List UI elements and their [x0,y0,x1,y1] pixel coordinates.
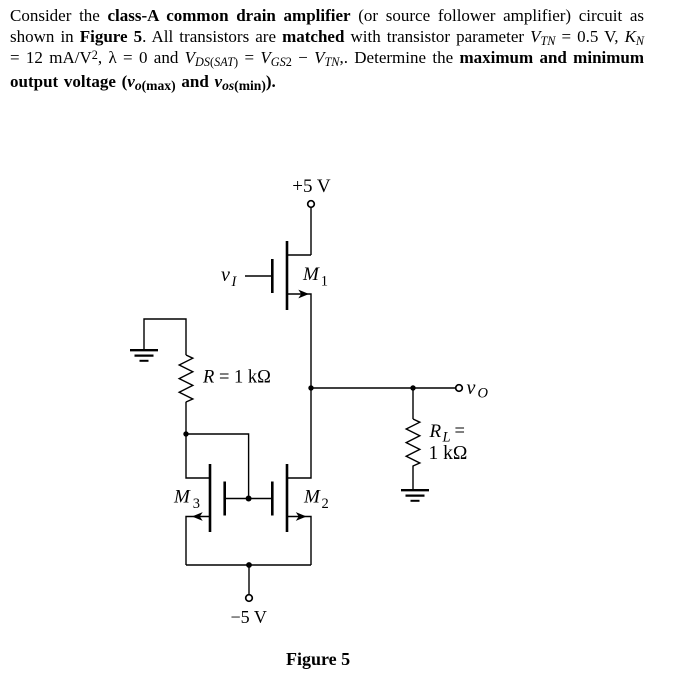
svg-text:+5 V: +5 V [292,176,331,197]
svg-text:v: v [467,377,476,399]
svg-text:Figure 5: Figure 5 [286,649,350,669]
svg-text:3: 3 [193,496,200,512]
svg-text:M: M [173,487,191,508]
svg-text:−5 V: −5 V [231,607,267,627]
svg-text:M: M [303,487,321,508]
svg-text:2: 2 [322,496,329,512]
svg-text:1 kΩ: 1 kΩ [429,443,468,464]
svg-text:R = 1 kΩ: R = 1 kΩ [202,368,271,388]
svg-text:R: R [429,421,442,442]
svg-text:1: 1 [321,274,328,290]
svg-text:I: I [231,274,238,290]
svg-text:v: v [221,264,230,286]
svg-text:O: O [478,386,489,402]
svg-text:=: = [455,422,465,442]
svg-text:M: M [302,264,320,285]
